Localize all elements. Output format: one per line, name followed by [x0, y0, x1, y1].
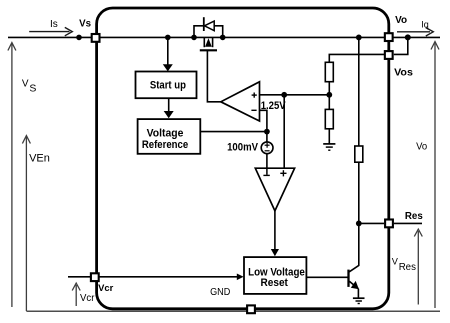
main supply wire Vs to Vo: [8, 36, 440, 38]
pass transistor body: [204, 37, 212, 47]
svg-text:Vos: Vos: [394, 67, 413, 79]
pin Vs: [92, 34, 100, 42]
pass transistor gate plate: [200, 49, 217, 51]
wire Res node to pin: [359, 222, 384, 224]
wire Res external: [394, 222, 422, 224]
resistor R3: [355, 146, 363, 162]
svg-text:Vs: Vs: [79, 19, 91, 30]
block Low Voltage Reset: [244, 257, 306, 294]
current arrow Iq: [397, 19, 433, 36]
svg-text:Reset: Reset: [261, 277, 289, 289]
pin GND: [247, 305, 255, 313]
node dot pass right: [220, 35, 226, 41]
comparator low voltage detect: [255, 168, 294, 211]
op-amp error amplifier: [221, 82, 260, 121]
svg-text:Vcr: Vcr: [80, 293, 95, 304]
external ground rail: [26, 310, 440, 312]
svg-text:GND: GND: [210, 286, 231, 298]
IC body outline: [97, 8, 389, 309]
node dot reference: [264, 129, 270, 135]
offset source 100mV: [261, 142, 273, 154]
annotation arrow Vo right: [431, 42, 439, 308]
annotation arrow VS: [8, 43, 16, 307]
node dot Res: [356, 221, 362, 227]
block Start up: [136, 72, 197, 99]
ground divider: [323, 144, 335, 150]
svg-text:V: V: [22, 79, 29, 90]
svg-text:VEn: VEn: [29, 152, 50, 164]
wire R3 bottom to Res node: [358, 162, 360, 223]
body diode: [194, 17, 223, 37]
wire Vos sense loop: [394, 37, 408, 54]
wire Vos pin to divider: [329, 54, 384, 62]
node dot external input: [76, 35, 82, 41]
wire op-amp plus input to divider tap: [260, 94, 330, 96]
svg-text:Voltage: Voltage: [147, 127, 184, 139]
wire offset branch down: [266, 132, 268, 169]
pin Vos: [385, 51, 393, 59]
ground Q1 emitter: [353, 298, 365, 303]
wire reference to minus node: [200, 131, 267, 133]
current arrow Is: [29, 19, 72, 36]
svg-text:Vo: Vo: [416, 141, 428, 152]
wire R2 to ground: [328, 129, 330, 144]
svg-text:S: S: [29, 83, 36, 95]
wire op-amp output to gate: [207, 51, 220, 102]
svg-text:V: V: [392, 257, 399, 267]
wire Vcr to LVR with arrowhead: [68, 274, 244, 281]
wire LVR to base: [306, 276, 347, 278]
svg-text:Is: Is: [50, 19, 58, 30]
node dot pass left: [191, 35, 197, 41]
pin Res: [385, 220, 393, 228]
svg-text:Res: Res: [405, 210, 423, 222]
block Voltage Reference: [138, 119, 201, 154]
wire comparator plus branch: [283, 95, 285, 168]
wire startup branch: [163, 35, 173, 72]
resistor R1: [325, 62, 333, 81]
wire op-amp minus input: [260, 110, 267, 131]
pin Vcr: [91, 273, 99, 281]
annotation arrow VEn: [22, 136, 30, 311]
svg-text:Start up: Start up: [150, 79, 186, 91]
svg-text:Vcr: Vcr: [98, 283, 113, 294]
wire comparator output: [271, 211, 279, 256]
node dot divider tap: [326, 92, 332, 98]
svg-text:1.25V: 1.25V: [261, 100, 287, 112]
pin Vo: [385, 33, 393, 41]
svg-text:Res: Res: [399, 262, 416, 273]
node dot bandgap: [281, 92, 287, 98]
node dot Vos sense: [405, 34, 411, 40]
svg-text:100mV: 100mV: [227, 141, 258, 153]
annotation arrow VRes: [414, 229, 422, 304]
wire R3 top: [358, 37, 360, 146]
resistor R2: [325, 109, 333, 128]
annotation arrow Vcr: [72, 283, 80, 306]
arrow startup to reference: [164, 98, 174, 118]
svg-text:Iq: Iq: [421, 19, 429, 29]
node dot R3 top: [356, 35, 362, 41]
label VRes: [392, 257, 416, 274]
transistor Q1 emitter: [349, 281, 359, 298]
wire divider middle: [328, 82, 330, 110]
label VS: [22, 79, 37, 95]
transistor Q1 collector: [349, 223, 359, 271]
svg-text:Vo: Vo: [395, 14, 407, 26]
svg-text:Reference: Reference: [142, 139, 188, 151]
transistor Q1 base bar: [347, 270, 349, 287]
